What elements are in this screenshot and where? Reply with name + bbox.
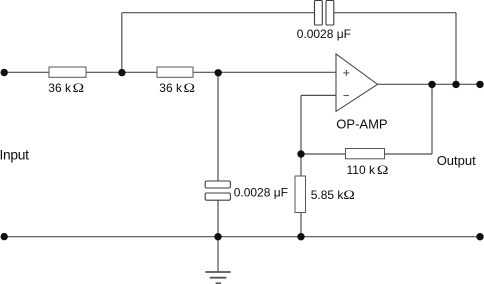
wire minus input horizontal: [301, 94, 336, 96]
capacitor C2 bottom plate: [205, 193, 230, 200]
capacitor C1 0.0028 uF left plate: [315, 1, 323, 26]
svg-text:0.0028 μF: 0.0028 μF: [297, 27, 351, 41]
wire bend up to output: [431, 84, 433, 154]
wire op-amp output: [378, 83, 481, 85]
wire C2 to bottom rail: [217, 201, 219, 237]
node output junction 1: [428, 81, 435, 88]
resistor R2 36 kOhm: [157, 67, 193, 77]
svg-text:OP-AMP: OP-AMP: [336, 116, 387, 131]
wire feedback down to output: [455, 13, 457, 85]
wire node A up to top rail: [121, 13, 123, 73]
svg-text:Output: Output: [437, 153, 476, 168]
svg-text:110 k: 110 k: [347, 163, 376, 177]
svg-text:Ω: Ω: [343, 188, 355, 202]
wire input left to R1: [4, 71, 49, 73]
node rail C2: [214, 233, 221, 240]
wire ground stem: [217, 237, 219, 272]
wire R3 bottom to rail: [300, 213, 302, 237]
capacitor C2 0.0028 uF top plate: [205, 181, 230, 188]
ground: [205, 272, 230, 283]
node rail right end: [476, 233, 483, 240]
node B: [215, 69, 222, 76]
node rail left end: [0, 233, 7, 240]
node input end: [0, 69, 7, 76]
resistor R3 5.85 kOhm: [295, 176, 306, 213]
resistor R1 36 kOhm: [49, 67, 86, 77]
op-amp U1 triangle: [336, 54, 378, 112]
svg-text:Ω: Ω: [73, 81, 85, 95]
op-amp minus sign: [344, 95, 349, 97]
resistor R4 110 kOhm: [346, 149, 385, 159]
capacitor C1 right plate: [326, 1, 334, 26]
svg-text:36 k: 36 k: [159, 81, 183, 95]
node output end: [476, 81, 483, 88]
svg-text:5.85 k: 5.85 k: [311, 188, 345, 202]
svg-text:Input: Input: [0, 148, 29, 163]
wire node B down to C2: [217, 72, 219, 181]
node A: [118, 69, 125, 76]
node output junction 2: [452, 81, 459, 88]
wire R1 to R2: [86, 71, 157, 73]
wire R2 to op-amp + input: [193, 71, 336, 73]
svg-text:Ω: Ω: [377, 163, 389, 177]
svg-text:0.0028 μF: 0.0028 μF: [234, 185, 288, 199]
wire node to R3 top: [300, 154, 302, 176]
wire minus input down to node: [300, 95, 302, 154]
svg-text:36 k: 36 k: [48, 81, 72, 95]
svg-text:Ω: Ω: [184, 81, 196, 95]
wire bottom rail: [4, 236, 480, 238]
node minus input: [297, 150, 304, 157]
wire top rail right of C1: [334, 12, 456, 14]
wire top rail left of C1: [122, 12, 315, 14]
wire R4 to bend: [385, 153, 433, 155]
node rail R3: [297, 233, 304, 240]
wire node to R4: [301, 153, 346, 155]
op-amp plus sign: [343, 70, 349, 76]
